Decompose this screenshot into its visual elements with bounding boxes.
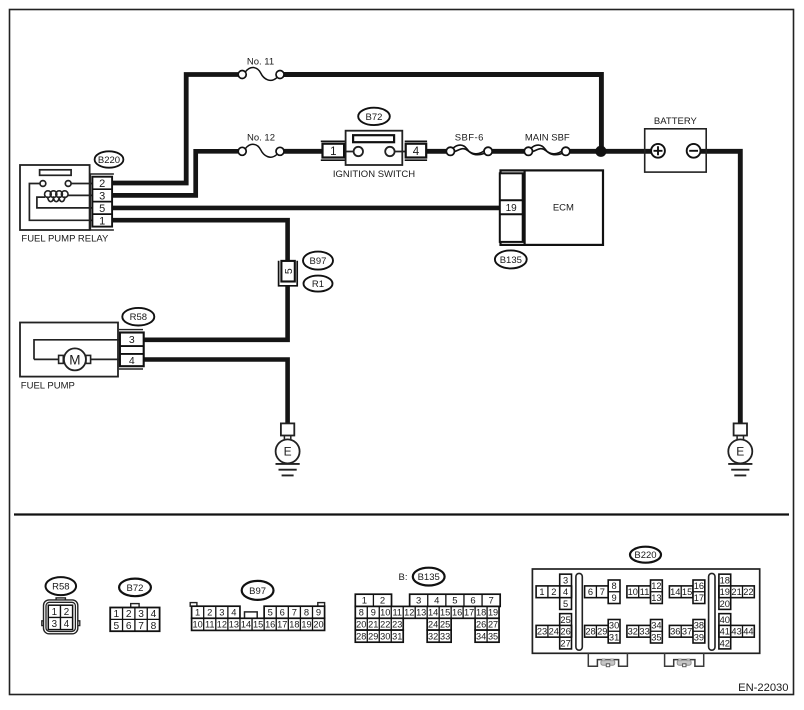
svg-text:36: 36 xyxy=(670,627,680,637)
svg-text:SBF-6: SBF-6 xyxy=(455,132,484,143)
svg-text:17: 17 xyxy=(694,593,704,603)
svg-text:8: 8 xyxy=(612,581,617,591)
svg-text:24: 24 xyxy=(549,627,559,637)
svg-text:30: 30 xyxy=(609,621,619,631)
component label R1 xyxy=(304,276,333,292)
svg-text:43: 43 xyxy=(731,627,741,637)
svg-text:MAIN SBF: MAIN SBF xyxy=(525,132,570,143)
svg-text:1: 1 xyxy=(99,215,105,227)
svg-text:B72: B72 xyxy=(127,583,144,594)
svg-text:No. 12: No. 12 xyxy=(247,132,275,143)
svg-text:4: 4 xyxy=(231,607,236,618)
junction node (battery feed) xyxy=(595,146,606,157)
wire relay pin5 to ECM pin19 xyxy=(113,206,501,211)
svg-text:25: 25 xyxy=(440,620,450,630)
svg-text:9: 9 xyxy=(612,593,617,603)
svg-text:B97: B97 xyxy=(249,586,266,597)
svg-text:5: 5 xyxy=(268,607,273,618)
svg-text:37: 37 xyxy=(682,627,692,637)
svg-text:32: 32 xyxy=(628,627,638,637)
svg-text:BATTERY: BATTERY xyxy=(654,116,698,127)
wire relay pin3 to No.12 fuse xyxy=(113,151,239,195)
svg-text:18: 18 xyxy=(476,608,486,618)
connector label B97 (bottom) xyxy=(242,581,274,600)
wire battery minus to ground E (right drop) xyxy=(700,151,740,424)
svg-text:6: 6 xyxy=(470,596,475,607)
wire fuel pump pin4 to ground E (left drop) xyxy=(144,360,288,424)
relay connector B220 pins 2/3/5/1 xyxy=(90,174,114,230)
svg-text:34: 34 xyxy=(476,631,486,641)
svg-text:23: 23 xyxy=(392,620,402,630)
svg-text:4: 4 xyxy=(434,596,439,607)
svg-text:9: 9 xyxy=(316,607,321,618)
svg-text:20: 20 xyxy=(313,620,323,630)
svg-text:3: 3 xyxy=(138,609,144,620)
svg-text:E: E xyxy=(284,445,292,459)
wire MAIN SBF to battery plus xyxy=(570,149,652,154)
svg-text:13: 13 xyxy=(651,593,661,603)
connector label B220 (bottom) xyxy=(630,547,661,563)
svg-text:1: 1 xyxy=(362,596,367,607)
svg-text:4: 4 xyxy=(129,355,135,367)
svg-text:10: 10 xyxy=(380,608,390,618)
ignition switch B72 xyxy=(333,131,415,180)
svg-text:5: 5 xyxy=(452,596,457,607)
svg-text:31: 31 xyxy=(392,631,402,641)
wire No.11 fuse to junction (drop at x=601.4) xyxy=(284,75,602,152)
svg-text:5: 5 xyxy=(99,203,105,215)
connector view B72 xyxy=(110,604,159,632)
svg-text:B220: B220 xyxy=(634,550,656,561)
connector label R58 (fuel pump) xyxy=(122,308,154,326)
svg-text:22: 22 xyxy=(743,587,753,597)
svg-text:10: 10 xyxy=(628,587,638,597)
svg-text:40: 40 xyxy=(720,615,730,625)
fusible link SBF-6 xyxy=(446,132,492,155)
svg-text:3: 3 xyxy=(52,619,58,630)
svg-text:15: 15 xyxy=(682,587,692,597)
connector view B97 xyxy=(190,603,324,631)
svg-text:16: 16 xyxy=(694,581,704,591)
svg-text:2: 2 xyxy=(207,607,212,618)
wire ignition switch pin4 to SBF-6 xyxy=(427,149,447,154)
connector view B220 xyxy=(532,569,759,653)
svg-text:4: 4 xyxy=(151,609,157,620)
svg-text:14: 14 xyxy=(241,620,251,630)
connector label B220 (relay) xyxy=(95,151,124,167)
wire relay pin2 to No.11 fuse (riser at x=186) xyxy=(113,75,239,184)
connector label B135 (bottom) xyxy=(413,568,445,586)
svg-text:E: E xyxy=(736,445,744,459)
svg-text:31: 31 xyxy=(609,632,619,642)
wire resistor R1 to fuel pump pin3 xyxy=(144,286,288,340)
svg-text:R58: R58 xyxy=(130,312,147,323)
svg-text:13: 13 xyxy=(229,620,239,630)
svg-text:1: 1 xyxy=(52,607,57,618)
svg-text:1: 1 xyxy=(195,607,200,618)
svg-text:16: 16 xyxy=(452,608,462,618)
svg-text:7: 7 xyxy=(600,587,605,597)
svg-text:14: 14 xyxy=(428,608,438,618)
svg-text:FUEL PUMP RELAY: FUEL PUMP RELAY xyxy=(21,233,109,244)
svg-text:R1: R1 xyxy=(312,279,324,290)
svg-text:4: 4 xyxy=(64,619,70,630)
wire No.12 fuse to ignition switch pin1 xyxy=(284,149,322,154)
svg-text:19: 19 xyxy=(506,203,518,214)
svg-text:11: 11 xyxy=(640,587,650,597)
svg-text:30: 30 xyxy=(380,631,390,641)
connector label B72 (bottom) xyxy=(119,579,151,597)
svg-text:38: 38 xyxy=(694,621,704,631)
svg-text:25: 25 xyxy=(560,615,570,625)
svg-text:8: 8 xyxy=(304,607,309,618)
svg-text:5: 5 xyxy=(563,599,568,609)
svg-text:1: 1 xyxy=(114,609,120,620)
svg-text:8: 8 xyxy=(359,608,364,618)
svg-text:6: 6 xyxy=(280,607,285,618)
svg-text:26: 26 xyxy=(560,627,570,637)
svg-text:2: 2 xyxy=(64,607,69,618)
svg-text:26: 26 xyxy=(476,620,486,630)
svg-text:2: 2 xyxy=(380,596,385,607)
connector label B135 (ECM) xyxy=(495,250,527,268)
svg-text:2: 2 xyxy=(126,609,132,620)
svg-text:3: 3 xyxy=(219,607,224,618)
connector label R58 (bottom) xyxy=(46,577,77,595)
svg-text:1: 1 xyxy=(539,587,544,597)
svg-text:2: 2 xyxy=(99,178,105,190)
svg-text:19: 19 xyxy=(488,608,498,618)
svg-text:FUEL PUMP: FUEL PUMP xyxy=(21,380,75,391)
svg-text:20: 20 xyxy=(356,620,366,630)
svg-text:3: 3 xyxy=(563,575,568,585)
svg-text:B:: B: xyxy=(399,572,408,583)
svg-text:13: 13 xyxy=(416,608,426,618)
svg-text:28: 28 xyxy=(585,627,595,637)
svg-text:B72: B72 xyxy=(366,112,383,123)
svg-text:28: 28 xyxy=(356,631,366,641)
svg-text:3: 3 xyxy=(416,596,421,607)
svg-text:21: 21 xyxy=(368,620,378,630)
svg-text:39: 39 xyxy=(694,632,704,642)
svg-text:5: 5 xyxy=(283,268,295,274)
svg-text:6: 6 xyxy=(588,587,593,597)
separator line xyxy=(14,513,789,515)
svg-text:20: 20 xyxy=(720,599,730,609)
svg-text:7: 7 xyxy=(488,596,493,607)
fuel pump motor xyxy=(20,323,120,392)
svg-text:44: 44 xyxy=(743,627,753,637)
svg-text:B135: B135 xyxy=(418,572,440,583)
svg-text:17: 17 xyxy=(464,608,474,618)
svg-text:12: 12 xyxy=(651,581,661,591)
wire relay pin1 to resistor R1 xyxy=(113,220,288,261)
fusible link MAIN SBF xyxy=(524,132,570,155)
svg-text:33: 33 xyxy=(639,627,649,637)
ECM xyxy=(501,170,604,245)
svg-text:21: 21 xyxy=(731,587,741,597)
connector label B72 (ignition switch) xyxy=(358,108,390,125)
figure number EN-22030 xyxy=(738,682,788,694)
fuse No. 11 xyxy=(238,56,284,80)
connector view B135 xyxy=(355,594,500,642)
svg-text:15: 15 xyxy=(253,620,263,630)
svg-text:35: 35 xyxy=(488,631,498,641)
svg-text:15: 15 xyxy=(440,608,450,618)
svg-text:1: 1 xyxy=(330,146,336,158)
svg-text:33: 33 xyxy=(440,631,450,641)
fuel pump connector R58 pins 3/4 xyxy=(119,330,144,369)
mounting bracket 2 (B220) xyxy=(665,653,704,666)
svg-text:No. 11: No. 11 xyxy=(247,56,274,67)
fuel pump relay body xyxy=(20,165,109,244)
svg-text:17: 17 xyxy=(277,620,287,630)
svg-text:18: 18 xyxy=(289,620,299,630)
svg-text:32: 32 xyxy=(428,631,438,641)
svg-text:IGNITION SWITCH: IGNITION SWITCH xyxy=(333,169,415,180)
svg-text:11: 11 xyxy=(392,608,402,618)
svg-text:23: 23 xyxy=(537,627,547,637)
svg-text:41: 41 xyxy=(720,627,730,637)
svg-text:9: 9 xyxy=(371,608,376,618)
svg-text:19: 19 xyxy=(301,620,311,630)
svg-text:22: 22 xyxy=(380,620,390,630)
svg-text:34: 34 xyxy=(651,621,661,631)
svg-text:B135: B135 xyxy=(500,255,522,266)
svg-text:24: 24 xyxy=(428,620,438,630)
svg-text:12: 12 xyxy=(404,608,414,618)
svg-text:10: 10 xyxy=(193,620,203,630)
svg-text:2: 2 xyxy=(551,587,556,597)
connector view R58 xyxy=(42,598,80,634)
svg-text:8: 8 xyxy=(151,621,157,632)
svg-text:4: 4 xyxy=(563,587,568,597)
svg-text:R58: R58 xyxy=(52,582,69,593)
resistor R1 connector pin 5 (B97) xyxy=(279,261,298,286)
ground E (battery side) xyxy=(728,423,752,475)
ignition switch pin 4 xyxy=(405,141,427,160)
fuse No. 12 xyxy=(238,132,284,157)
svg-text:12: 12 xyxy=(217,620,227,630)
ignition switch pin 1 xyxy=(321,141,345,160)
svg-text:27: 27 xyxy=(560,638,570,648)
svg-text:27: 27 xyxy=(488,620,498,630)
mounting bracket 1 (B220) xyxy=(588,653,627,666)
wire SBF-6 to MAIN SBF xyxy=(492,149,525,154)
svg-text:19: 19 xyxy=(720,587,730,597)
svg-text:29: 29 xyxy=(368,631,378,641)
svg-text:M: M xyxy=(69,352,80,367)
svg-text:14: 14 xyxy=(670,587,680,597)
ground E (fuel pump side) xyxy=(276,423,300,475)
svg-text:B97: B97 xyxy=(310,256,327,267)
svg-text:3: 3 xyxy=(129,334,135,346)
svg-text:3: 3 xyxy=(99,190,105,202)
svg-text:ECM: ECM xyxy=(553,203,574,214)
svg-text:29: 29 xyxy=(597,627,607,637)
label B: xyxy=(399,572,408,583)
ECM connector B135 pin 19 xyxy=(500,173,523,242)
svg-text:16: 16 xyxy=(265,620,275,630)
svg-text:5: 5 xyxy=(114,621,120,632)
svg-text:7: 7 xyxy=(138,621,144,632)
svg-text:35: 35 xyxy=(651,632,661,642)
svg-text:18: 18 xyxy=(720,575,730,585)
svg-text:42: 42 xyxy=(720,638,730,648)
svg-text:B220: B220 xyxy=(98,155,120,166)
svg-text:EN-22030: EN-22030 xyxy=(738,682,788,694)
battery xyxy=(645,116,707,172)
svg-text:4: 4 xyxy=(413,146,420,158)
svg-text:6: 6 xyxy=(126,621,132,632)
connector label B97 (resistor) xyxy=(303,252,333,270)
svg-text:11: 11 xyxy=(205,620,215,630)
svg-text:7: 7 xyxy=(292,607,297,618)
